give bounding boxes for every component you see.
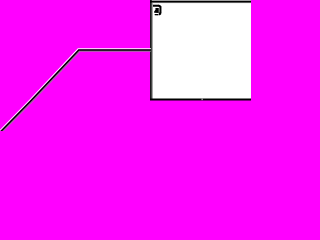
box left border	[150, 0, 152, 101]
white label box fill	[150, 0, 251, 101]
box bottom border	[150, 99, 251, 101]
polyline white highlight (upper-left side)	[0, 49, 151, 131]
digit 3 label: middle wedge	[154, 8, 159, 13]
digit 3 label: right stem	[159, 6, 161, 13]
left border inner antialias fade	[151, 3, 153, 99]
bottom border notch artifact	[201, 99, 203, 100]
digit 3 label: top-right shoulder	[158, 5, 161, 8]
digit 3 label: bottom bar	[155, 14, 159, 15]
polyline gray shadow (lower-right side)	[2, 51, 151, 132]
polyline black core: bottom-left corner to bend to box edge	[1, 50, 151, 132]
top border inner antialias fade	[152, 2, 251, 4]
box top border	[150, 1, 251, 3]
digit 3 label: top bar	[153, 5, 159, 7]
digit 3 label: bottom-right curve	[159, 12, 162, 15]
